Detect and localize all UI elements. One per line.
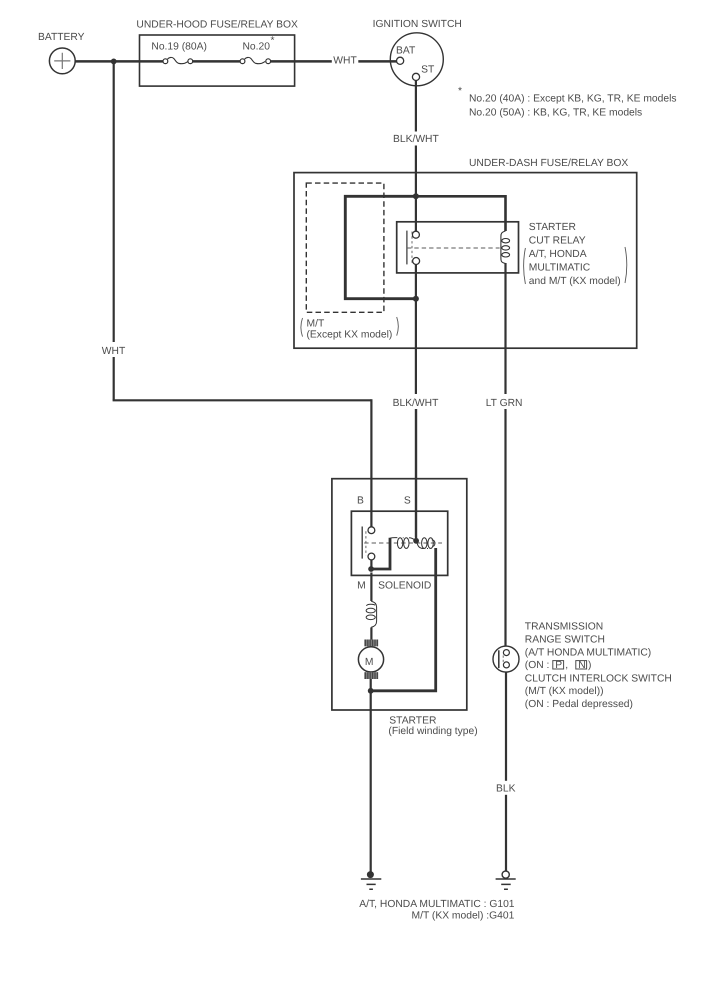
svg-text:LT GRN: LT GRN [486, 398, 523, 409]
wire fuse box to ignition BAT [271, 60, 397, 63]
svg-text:UNDER-DASH FUSE/RELAY BOX: UNDER-DASH FUSE/RELAY BOX [469, 158, 628, 169]
wire LT GRN coil down to transmission switch [504, 263, 506, 650]
svg-text:IGNITION SWITCH: IGNITION SWITCH [373, 19, 462, 30]
solenoid pull-in coil [390, 538, 415, 549]
starter box [332, 479, 467, 710]
motor circle M1 [358, 647, 383, 672]
ground G401 terminal [502, 871, 509, 878]
solenoid dashed horizontal linkage [364, 542, 442, 544]
svg-text:No.20: No.20 [243, 42, 271, 53]
label white backgrounds [100, 54, 526, 795]
svg-text:No.19 (80A): No.19 (80A) [151, 42, 207, 53]
relay contact top terminal [412, 231, 419, 238]
label P box [553, 661, 564, 669]
solenoid contact dashed linkage [365, 531, 367, 555]
svg-text:B: B [357, 496, 364, 507]
svg-text:P: P [555, 660, 562, 671]
transmission switch blade [498, 650, 500, 668]
svg-text:M: M [365, 657, 374, 668]
relay coil [501, 231, 510, 264]
wire relay bottom contact down to starter S [415, 264, 417, 537]
svg-text:TRANSMISSION: TRANSMISSION [525, 622, 603, 633]
svg-text:and M/T (KX model): and M/T (KX model) [529, 276, 621, 287]
paren left of relay note [524, 248, 526, 284]
transmission switch bottom terminal [503, 662, 509, 668]
svg-text:M: M [357, 580, 366, 591]
svg-text:BLK/WHT: BLK/WHT [393, 134, 439, 145]
svg-text:BATTERY: BATTERY [38, 32, 85, 43]
ignition switch circle [390, 33, 443, 86]
transmission range switch circle [493, 646, 519, 672]
wire between fuses [193, 60, 241, 63]
svg-text:(ON :: (ON : [525, 660, 550, 671]
svg-text:STARTER: STARTER [529, 222, 576, 233]
wire relay coil feed [416, 196, 506, 231]
node bypass top junction [413, 193, 419, 199]
paren left of M/T label [301, 318, 303, 337]
solenoid hold-in coil [417, 538, 435, 549]
wire starter S down [415, 399, 417, 538]
wire starter B down [370, 399, 372, 527]
node motor bottom junction [368, 688, 374, 694]
paren right of M/T label [397, 317, 399, 336]
relay contact bottom terminal [413, 258, 420, 265]
relay dashed linkage horizontal [407, 247, 500, 249]
ground G101 dot [367, 871, 374, 878]
svg-text:(Field winding type): (Field winding type) [388, 726, 477, 737]
wire WHT horizontal to starter B [113, 399, 372, 401]
fuse No.20 right terminal [266, 59, 271, 64]
svg-text:ST: ST [421, 65, 435, 76]
svg-text:CLUTCH INTERLOCK SWITCH: CLUTCH INTERLOCK SWITCH [525, 673, 672, 684]
relay contact blade [406, 231, 408, 265]
wire left WHT vertical battery down [113, 61, 115, 400]
svg-text:MULTIMATIC: MULTIMATIC [529, 263, 591, 274]
svg-text:M/T: M/T [307, 319, 325, 330]
transmission switch top terminal [503, 650, 509, 656]
wire motor to ground [370, 679, 372, 872]
ground G401 symbol [496, 879, 516, 889]
svg-text:BAT: BAT [396, 45, 416, 56]
ignition BAT terminal [397, 57, 404, 64]
solenoid B terminal [368, 527, 375, 534]
wire M/T bypass [345, 196, 416, 298]
solenoid M-side contact terminal [368, 553, 375, 560]
fuse No.19 right terminal [188, 59, 193, 64]
under-hood fuse/relay box [140, 35, 295, 86]
wire transmission switch down to ground BLK [505, 668, 507, 872]
wire M down to field winding [370, 573, 372, 602]
field winding coil [366, 601, 377, 627]
solenoid box [351, 511, 447, 575]
svg-text:UNDER-HOOD FUSE/RELAY BOX: UNDER-HOOD FUSE/RELAY BOX [136, 20, 298, 31]
svg-text:RANGE SWITCH: RANGE SWITCH [525, 635, 605, 646]
transmission switch dashed linkage [502, 656, 504, 663]
svg-text:*: * [271, 36, 275, 47]
svg-text:CUT RELAY: CUT RELAY [529, 236, 586, 247]
svg-text:A/T, HONDA: A/T, HONDA [529, 249, 587, 260]
fuse No.19 element [168, 57, 189, 63]
svg-text:SOLENOID: SOLENOID [378, 580, 431, 591]
svg-text:WHT: WHT [333, 56, 357, 67]
battery circle [49, 48, 75, 74]
svg-text:,: , [565, 660, 568, 671]
svg-text:(Except KX model): (Except KX model) [307, 330, 393, 341]
motor top brush [364, 640, 378, 647]
svg-text:No.20 (50A) : KB, KG, TR, KE m: No.20 (50A) : KB, KG, TR, KE models [469, 108, 642, 119]
svg-text:(M/T (KX model)): (M/T (KX model)) [525, 686, 604, 697]
M/T dashed box [306, 183, 384, 312]
node battery junction [111, 59, 117, 65]
svg-text:S: S [404, 496, 411, 507]
svg-text:BLK: BLK [496, 784, 516, 795]
fuse No.19 left terminal [163, 59, 168, 64]
svg-text:WHT: WHT [102, 346, 126, 357]
ground G101 symbol [361, 879, 381, 889]
svg-text:BLK/WHT: BLK/WHT [393, 398, 439, 409]
node S junction [413, 538, 419, 544]
svg-text:STARTER: STARTER [389, 716, 436, 727]
wire contact to M node [370, 560, 372, 569]
wire ignition ST down BLK/WHT [415, 80, 417, 231]
wire M junction to pull-in coil [371, 538, 390, 569]
node M junction [368, 566, 374, 572]
label N box [576, 661, 587, 669]
svg-text:*: * [458, 86, 462, 97]
svg-text:(ON : Pedal depressed): (ON : Pedal depressed) [525, 699, 633, 710]
ignition ST terminal [412, 73, 419, 80]
svg-text:M/T (KX model) :G401: M/T (KX model) :G401 [412, 911, 515, 922]
fuse No.20 element [245, 57, 266, 63]
relay contact dashed linkage [411, 232, 413, 264]
wire battery to fuse box [75, 60, 163, 63]
svg-text:A/T, HONDA MULTIMATIC : G101: A/T, HONDA MULTIMATIC : G101 [359, 899, 515, 910]
svg-text:): ) [588, 660, 591, 671]
starter cut relay box [397, 222, 519, 273]
node bypass bottom junction [413, 296, 419, 302]
solenoid contact blade [361, 527, 363, 559]
under-dash fuse/relay box [294, 173, 637, 349]
svg-text:(A/T HONDA MULTIMATIC): (A/T HONDA MULTIMATIC) [525, 648, 651, 659]
wire field winding to motor [370, 627, 372, 640]
motor bottom brush [364, 672, 378, 679]
fuse No.20 left terminal [240, 59, 245, 64]
svg-text:N: N [578, 660, 585, 671]
svg-text:No.20 (40A) : Except KB, KG, T: No.20 (40A) : Except KB, KG, TR, KE mode… [469, 94, 677, 105]
paren right of relay note [625, 247, 627, 283]
battery plus sign [54, 53, 70, 69]
wire hold-in coil down and to motor bottom [371, 548, 436, 691]
